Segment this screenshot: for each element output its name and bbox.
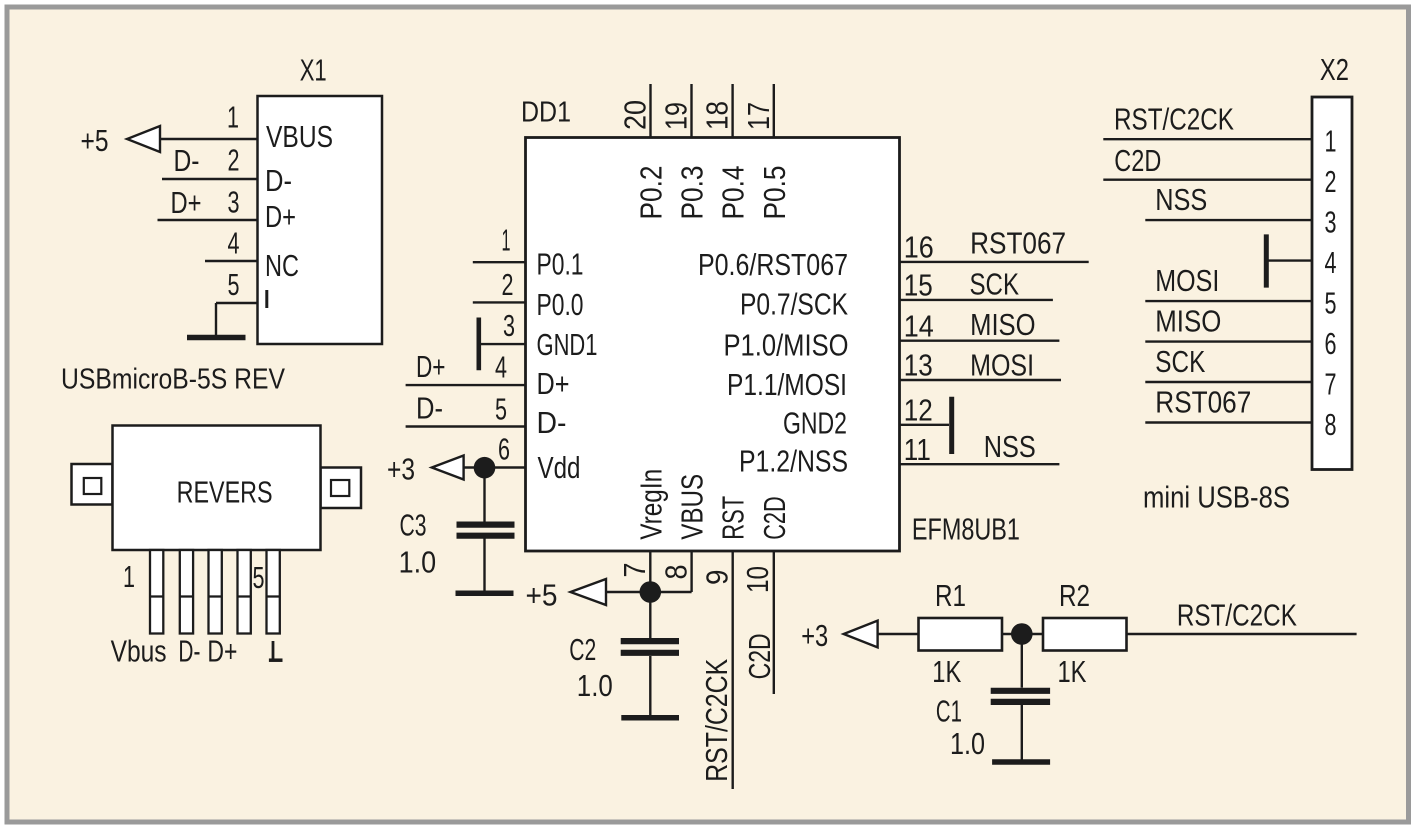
wire X1 pin4 NC xyxy=(205,260,259,262)
wire DD1 pin16 RST067 xyxy=(900,261,1089,263)
svg-text:D-: D- xyxy=(174,143,200,178)
svg-text:1: 1 xyxy=(1325,124,1337,159)
ground C1 xyxy=(992,759,1050,765)
svg-text:5: 5 xyxy=(228,267,240,302)
wire C2 to ground xyxy=(649,656,651,717)
wire X1 pin5 xyxy=(216,302,259,304)
svg-text:7: 7 xyxy=(617,563,652,578)
svg-text:SCK: SCK xyxy=(970,266,1020,301)
ground GND2 bar xyxy=(949,397,954,454)
svg-text:3: 3 xyxy=(1325,204,1337,239)
REVERS body xyxy=(113,426,321,551)
svg-text:P1.0/MISO: P1.0/MISO xyxy=(724,328,849,363)
wire X1 pin1 VBUS xyxy=(160,138,259,140)
junction node RST divider xyxy=(1011,623,1033,645)
wire junction to C1 xyxy=(1021,634,1023,688)
svg-text:2: 2 xyxy=(228,143,240,178)
svg-text:D+: D+ xyxy=(207,634,237,669)
wire X2 pin1 xyxy=(1103,138,1312,140)
svg-text:RST/C2CK: RST/C2CK xyxy=(699,659,734,782)
svg-text:GND1: GND1 xyxy=(537,327,598,362)
capacitor C2 xyxy=(621,638,679,644)
power +5 arrow xyxy=(127,126,160,152)
wire C1 to ground xyxy=(1021,705,1023,761)
svg-text:P0.1: P0.1 xyxy=(537,247,584,282)
REVERS right tab xyxy=(321,468,362,509)
svg-text:NSS: NSS xyxy=(984,429,1036,464)
ground C3 xyxy=(456,591,514,597)
wire X2 pin6 xyxy=(1145,340,1312,342)
ground C2 xyxy=(621,715,679,721)
svg-text:D-: D- xyxy=(537,405,567,440)
svg-text:16: 16 xyxy=(904,230,934,265)
REVERS pad label earth xyxy=(272,641,275,659)
svg-text:D+: D+ xyxy=(265,199,296,234)
svg-text:+5: +5 xyxy=(526,578,558,613)
svg-text:X1: X1 xyxy=(300,53,327,88)
svg-text:USBmicroB-5S REV: USBmicroB-5S REV xyxy=(61,364,286,396)
svg-text:1.0: 1.0 xyxy=(399,544,437,579)
svg-text:RST/C2CK: RST/C2CK xyxy=(1114,101,1234,136)
svg-text:RST/C2CK: RST/C2CK xyxy=(1177,597,1297,632)
wire +3 to R1 xyxy=(878,633,919,635)
wire X2 pin5 xyxy=(1145,300,1312,302)
wire DD1 pin5 xyxy=(406,425,526,427)
wire X1 pin2 D- xyxy=(162,178,259,180)
wire X1 pin3 D+ xyxy=(158,219,259,221)
svg-text:D+: D+ xyxy=(537,366,570,401)
svg-text:Vbus: Vbus xyxy=(111,634,167,669)
wire X2 pin8 xyxy=(1145,421,1312,423)
junction node Vdd xyxy=(474,457,496,479)
svg-text:D-: D- xyxy=(265,163,292,198)
wire X2 pin4 xyxy=(1266,259,1312,261)
svg-text:MOSI: MOSI xyxy=(1155,263,1219,298)
svg-text:5: 5 xyxy=(1325,285,1337,320)
svg-text:C2D: C2D xyxy=(742,633,777,679)
svg-text:P0.0: P0.0 xyxy=(537,287,584,322)
svg-text:+5: +5 xyxy=(81,123,109,158)
svg-text:20: 20 xyxy=(618,100,653,130)
svg-text:1: 1 xyxy=(502,223,511,258)
svg-text:8: 8 xyxy=(1325,407,1337,442)
REVERS left tab xyxy=(72,464,113,505)
svg-text:VregIn: VregIn xyxy=(633,469,668,540)
wire X2 pin3 xyxy=(1145,219,1312,221)
wire DD1 pin11 NSS xyxy=(900,463,1060,465)
svg-text:P0.4: P0.4 xyxy=(716,166,751,220)
connector X1 body xyxy=(258,96,383,344)
svg-text:VBUS: VBUS xyxy=(266,119,333,154)
svg-text:R1: R1 xyxy=(935,578,966,613)
svg-text:Vdd: Vdd xyxy=(538,450,581,485)
wire DD1 pin8 VBUS xyxy=(690,551,692,592)
svg-text:P1.2/NSS: P1.2/NSS xyxy=(739,444,848,479)
wire R1 to R2 xyxy=(1002,633,1043,635)
svg-text:C2D: C2D xyxy=(1114,143,1161,178)
svg-text:7: 7 xyxy=(1325,366,1337,401)
wire DD1 pin19 xyxy=(690,84,692,138)
power +5 arrow xyxy=(571,579,607,605)
svg-text:NSS: NSS xyxy=(1155,182,1207,217)
svg-text:19: 19 xyxy=(659,102,694,130)
svg-text:2: 2 xyxy=(1325,164,1337,199)
svg-text:D-: D- xyxy=(178,634,200,669)
svg-text:1.0: 1.0 xyxy=(950,726,985,761)
svg-text:1K: 1K xyxy=(932,654,961,689)
svg-text:6: 6 xyxy=(1325,326,1337,361)
svg-text:P1.1/MOSI: P1.1/MOSI xyxy=(727,367,847,402)
resistor R2 xyxy=(1043,618,1127,651)
wire DD1 pin12 xyxy=(900,424,950,426)
wire DD1 pin2 xyxy=(473,301,526,303)
svg-text:RST067: RST067 xyxy=(970,226,1066,261)
wire DD1 pin18 xyxy=(731,84,733,138)
wire +5 to junction xyxy=(606,591,650,593)
svg-text:P0.3: P0.3 xyxy=(675,166,710,220)
svg-text:1: 1 xyxy=(123,559,135,594)
wire DD1 pin17 xyxy=(773,84,775,138)
svg-text:8: 8 xyxy=(659,565,694,580)
wire X2 pin2 xyxy=(1103,178,1312,180)
svg-text:RST067: RST067 xyxy=(1155,385,1251,420)
wire DD1 pin13 MOSI xyxy=(900,379,1062,381)
svg-text:X2: X2 xyxy=(1320,52,1349,87)
svg-text:C2: C2 xyxy=(569,632,596,667)
wire DD1 pin6 Vdd xyxy=(464,466,526,468)
svg-text:C1: C1 xyxy=(936,693,962,728)
svg-text:10: 10 xyxy=(740,566,775,593)
ground X2 pin4 bar xyxy=(1264,234,1269,287)
svg-text:C3: C3 xyxy=(400,508,427,543)
wire DD1 pin10 C2D xyxy=(773,551,775,694)
svg-text:mini USB-8S: mini USB-8S xyxy=(1143,480,1290,515)
svg-text:SCK: SCK xyxy=(1155,344,1205,379)
wire DD1 pin7 VregIn xyxy=(649,551,651,592)
wire X2 pin7 xyxy=(1145,381,1312,383)
svg-text:1K: 1K xyxy=(1058,654,1087,689)
svg-text:REVERS: REVERS xyxy=(177,475,273,510)
wire DD1 pin15 SCK xyxy=(900,299,1053,301)
svg-text:C2D: C2D xyxy=(757,496,792,540)
svg-text:14: 14 xyxy=(904,308,934,343)
wire Vdd to C3 xyxy=(483,468,485,522)
svg-text:11: 11 xyxy=(904,432,931,467)
wire R2 to RST/C2CK xyxy=(1127,633,1357,635)
REVERS pins xyxy=(150,550,163,634)
svg-text:3: 3 xyxy=(228,185,240,220)
svg-text:MOSI: MOSI xyxy=(970,348,1034,383)
svg-text:VBUS: VBUS xyxy=(675,474,710,540)
svg-text:+3: +3 xyxy=(387,452,415,487)
svg-text:+3: +3 xyxy=(801,618,828,653)
capacitor C3 xyxy=(457,521,515,527)
X1 pin name I xyxy=(265,290,268,308)
svg-text:9: 9 xyxy=(700,570,735,586)
svg-text:GND2: GND2 xyxy=(783,405,847,440)
svg-text:DD1: DD1 xyxy=(521,97,571,129)
svg-text:D+: D+ xyxy=(171,185,202,220)
wire DD1 pin1 xyxy=(473,261,526,263)
capacitor C1 xyxy=(991,688,1050,694)
wire C3 to ground xyxy=(483,539,485,593)
connector X2 body xyxy=(1312,97,1352,470)
svg-text:5: 5 xyxy=(253,560,265,595)
svg-text:P0.6/RST067: P0.6/RST067 xyxy=(698,247,848,282)
svg-text:P0.2: P0.2 xyxy=(634,166,669,220)
svg-text:4: 4 xyxy=(1325,245,1337,280)
svg-text:5: 5 xyxy=(495,392,507,427)
ground GND1 bar xyxy=(476,318,481,371)
svg-text:MISO: MISO xyxy=(1155,304,1221,339)
svg-text:R2: R2 xyxy=(1059,578,1090,613)
svg-text:P0.7/SCK: P0.7/SCK xyxy=(740,286,848,321)
svg-text:13: 13 xyxy=(904,348,933,383)
junction node +5 xyxy=(640,581,662,603)
resistor R1 xyxy=(919,618,1003,651)
svg-text:3: 3 xyxy=(503,308,515,343)
power +3 arrow xyxy=(432,456,464,480)
svg-text:6: 6 xyxy=(498,432,510,467)
svg-text:1.0: 1.0 xyxy=(577,668,613,703)
svg-text:4: 4 xyxy=(228,226,240,261)
wire DD1 pin3 xyxy=(479,343,526,345)
svg-text:D+: D+ xyxy=(416,349,446,384)
wire DD1 pin4 xyxy=(406,384,526,386)
wire DD1 pin14 MISO xyxy=(900,340,1060,342)
svg-text:RST: RST xyxy=(716,496,751,540)
svg-text:D-: D- xyxy=(416,391,443,426)
svg-text:15: 15 xyxy=(904,268,933,303)
svg-text:1: 1 xyxy=(227,100,239,135)
svg-text:18: 18 xyxy=(700,101,735,130)
wire DD1 pin20 xyxy=(649,84,651,138)
ground X1 pin5 xyxy=(187,335,246,341)
svg-text:NC: NC xyxy=(265,248,299,283)
svg-text:12: 12 xyxy=(904,392,933,427)
IC DD1 body xyxy=(526,138,900,552)
svg-text:17: 17 xyxy=(741,102,776,130)
svg-text:MISO: MISO xyxy=(970,307,1036,342)
wire junction to C2 xyxy=(649,592,651,638)
svg-text:P0.5: P0.5 xyxy=(757,166,792,220)
svg-text:EFM8UB1: EFM8UB1 xyxy=(912,511,1020,546)
wire DD1 pin9 RST xyxy=(732,551,734,789)
svg-text:2: 2 xyxy=(502,267,514,302)
power +3 arrow xyxy=(844,621,878,648)
svg-text:4: 4 xyxy=(495,350,507,385)
